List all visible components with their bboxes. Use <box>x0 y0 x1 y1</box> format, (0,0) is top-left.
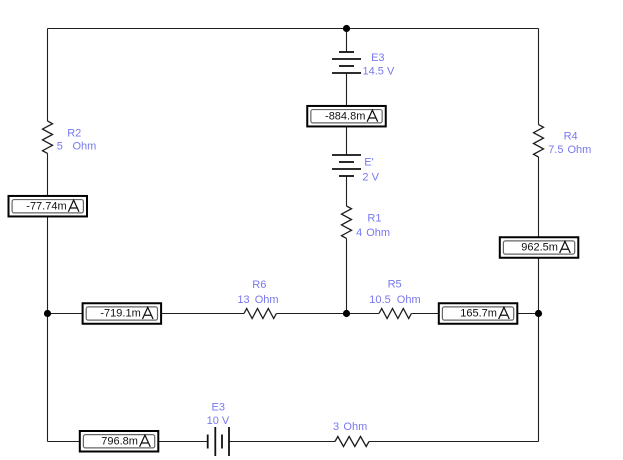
battery E3 bottom <box>208 427 229 456</box>
svg-text:E3: E3 <box>371 52 384 64</box>
node top center <box>343 25 350 32</box>
svg-text:14.5 V: 14.5 V <box>363 65 395 77</box>
svg-text:R2: R2 <box>67 127 81 139</box>
ammeter 796.8mA <box>80 431 159 452</box>
wire middle left <box>48 313 245 315</box>
node middle left <box>44 310 51 317</box>
svg-text:Ohm: Ohm <box>397 294 421 306</box>
svg-text:3: 3 <box>333 421 339 433</box>
wire left lower <box>47 153 49 441</box>
wire center column top <box>346 29 348 53</box>
resistor R1 <box>342 206 352 238</box>
svg-text:E': E' <box>364 157 373 169</box>
resistor 3 Ohm <box>335 437 369 447</box>
wire bottom middle <box>229 441 335 443</box>
wire left upper <box>47 29 49 122</box>
svg-text:E3: E3 <box>212 402 225 414</box>
ammeter 165.7mA <box>439 303 518 324</box>
svg-text:2 V: 2 V <box>362 171 379 183</box>
svg-text:4: 4 <box>356 227 362 239</box>
svg-text:R4: R4 <box>564 130 578 142</box>
battery E3 top <box>332 52 361 73</box>
node middle center <box>343 310 350 317</box>
wire top <box>48 28 539 30</box>
ammeter -719.1mA <box>83 303 162 324</box>
wire center E3 to E' <box>346 73 348 155</box>
resistor R4 <box>534 125 544 157</box>
svg-text:R5: R5 <box>388 279 402 291</box>
svg-text:10.5: 10.5 <box>369 294 390 306</box>
resistor R5 <box>379 309 411 319</box>
ammeter -77.74mA <box>9 196 88 217</box>
wire middle right <box>411 313 538 315</box>
svg-text:R1: R1 <box>367 213 381 225</box>
node middle right <box>535 310 542 317</box>
svg-text:R6: R6 <box>252 279 266 291</box>
svg-text:Ohm: Ohm <box>366 227 390 239</box>
svg-text:Ohm: Ohm <box>568 144 592 156</box>
wire right upper <box>538 29 540 125</box>
svg-text:962.5m: 962.5m <box>521 242 558 254</box>
svg-text:Ohm: Ohm <box>73 140 97 152</box>
resistor R2 <box>43 121 53 153</box>
svg-text:Ohm: Ohm <box>255 294 279 306</box>
ammeter -884.8mA <box>307 106 386 127</box>
svg-text:13: 13 <box>237 294 249 306</box>
wire right lower <box>538 157 540 442</box>
svg-text:165.7m: 165.7m <box>460 308 497 320</box>
wire bottom left <box>48 441 208 443</box>
battery E' <box>332 155 361 176</box>
svg-text:7.5: 7.5 <box>548 144 563 156</box>
resistor R6 <box>244 309 276 319</box>
svg-text:Ohm: Ohm <box>343 421 367 433</box>
ammeter 962.5mA <box>500 237 579 258</box>
wire center E' to R1 <box>346 176 348 206</box>
wire center R1 to middle node <box>346 238 348 313</box>
wire bottom right <box>369 441 539 443</box>
svg-text:796.8m: 796.8m <box>101 435 138 447</box>
svg-text:-884.8m: -884.8m <box>325 110 365 122</box>
svg-text:5: 5 <box>57 140 63 152</box>
svg-text:-719.1m: -719.1m <box>100 308 140 320</box>
svg-text:-77.74m: -77.74m <box>26 200 66 212</box>
wire middle center <box>276 313 379 315</box>
svg-text:10 V: 10 V <box>207 415 230 427</box>
